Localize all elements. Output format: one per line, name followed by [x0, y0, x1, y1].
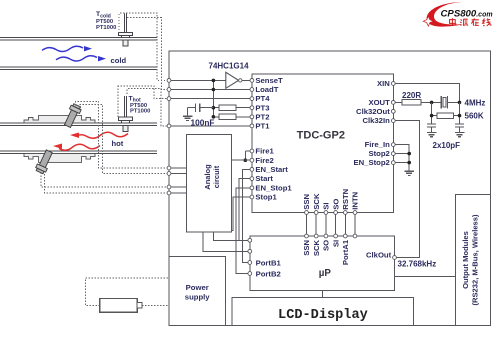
svg-text:2x10pF: 2x10pF — [433, 141, 461, 150]
svg-text:XIN: XIN — [377, 79, 390, 88]
svg-text:EN_Start: EN_Start — [255, 165, 288, 174]
svg-text:PT500: PT500 — [96, 19, 113, 25]
svg-text:4MHz: 4MHz — [465, 98, 486, 107]
svg-text:supply: supply — [185, 292, 210, 301]
svg-text:Clk32In: Clk32In — [362, 116, 390, 125]
svg-text:SSN: SSN — [302, 239, 311, 255]
svg-text:220R: 220R — [402, 91, 421, 100]
svg-text:INTN: INTN — [351, 191, 360, 209]
svg-text:Fire_In: Fire_In — [365, 140, 391, 149]
svg-text:Power: Power — [186, 283, 209, 292]
svg-text:PT2: PT2 — [255, 112, 269, 121]
svg-text:LCD-Display: LCD-Display — [278, 308, 368, 323]
svg-text:Clk32Out: Clk32Out — [356, 107, 390, 116]
svg-text:Stop1: Stop1 — [255, 193, 277, 202]
svg-text:µP: µP — [319, 268, 332, 279]
svg-text:SI: SI — [331, 240, 340, 247]
svg-text:SSN: SSN — [302, 193, 311, 209]
svg-text:SenseT: SenseT — [255, 76, 283, 85]
svg-text:560K: 560K — [465, 112, 484, 121]
svg-text:PortB2: PortB2 — [256, 269, 281, 278]
svg-text:Fire2: Fire2 — [255, 156, 273, 165]
svg-text:LoadT: LoadT — [255, 85, 278, 94]
svg-text:TDC-GP2: TDC-GP2 — [297, 129, 345, 141]
svg-text:XOUT: XOUT — [368, 98, 390, 107]
svg-text:Analog: Analog — [203, 164, 212, 190]
svg-text:SI: SI — [322, 202, 331, 209]
svg-text:(RS232, M-Bus, Wireless): (RS232, M-Bus, Wireless) — [471, 214, 480, 306]
svg-text:Fire1: Fire1 — [255, 147, 274, 156]
svg-text:SO: SO — [322, 240, 331, 251]
svg-text:PT1: PT1 — [255, 122, 270, 131]
svg-text:PT1000: PT1000 — [130, 109, 150, 115]
svg-text:Output Modules: Output Modules — [461, 231, 470, 289]
svg-text:CPS800.com: CPS800.com — [441, 8, 493, 19]
svg-text:SCK: SCK — [312, 239, 321, 256]
svg-text:circuit: circuit — [212, 165, 221, 188]
svg-text:EN_Stop1: EN_Stop1 — [255, 183, 292, 192]
svg-text:100nF: 100nF — [191, 118, 215, 128]
svg-text:PT4: PT4 — [255, 94, 270, 103]
svg-text:ClkOut: ClkOut — [366, 251, 392, 260]
svg-text:Start: Start — [255, 174, 273, 183]
svg-text:PT1000: PT1000 — [96, 25, 116, 31]
svg-text:PortB1: PortB1 — [256, 258, 282, 267]
svg-text:74HC1G14: 74HC1G14 — [209, 62, 250, 71]
svg-text:32.768kHz: 32.768kHz — [398, 259, 437, 268]
svg-text:Stop2: Stop2 — [368, 149, 389, 158]
svg-text:PortA1: PortA1 — [341, 239, 350, 265]
svg-text:EN_Stop2: EN_Stop2 — [353, 158, 389, 167]
svg-text:PT3: PT3 — [255, 103, 269, 112]
svg-text:SO: SO — [331, 199, 340, 210]
svg-text:SCK: SCK — [312, 193, 321, 210]
svg-text:hot: hot — [112, 139, 124, 148]
svg-text:cold: cold — [111, 56, 127, 65]
svg-text:RSTN: RSTN — [341, 188, 350, 209]
